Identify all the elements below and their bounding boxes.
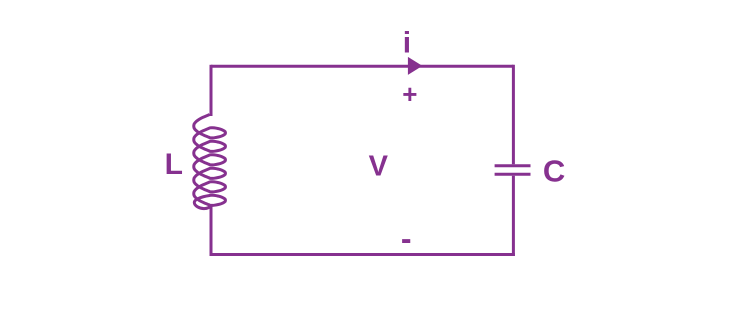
wire bottom (210, 253, 515, 256)
svg-text:i: i (403, 27, 411, 60)
svg-text:C: C (543, 154, 565, 189)
wire left upper (210, 65, 213, 116)
svg-text:L: L (165, 148, 183, 181)
capacitor C plates (495, 166, 531, 174)
inductor L (194, 115, 226, 209)
wire right upper (512, 65, 515, 165)
svg-text:V: V (369, 150, 389, 182)
wire right lower (512, 176, 515, 256)
wire left lower (210, 206, 213, 256)
current arrow (408, 57, 423, 75)
wire top (211, 65, 513, 68)
svg-text:+: + (402, 79, 417, 109)
svg-text:-: - (401, 220, 412, 256)
